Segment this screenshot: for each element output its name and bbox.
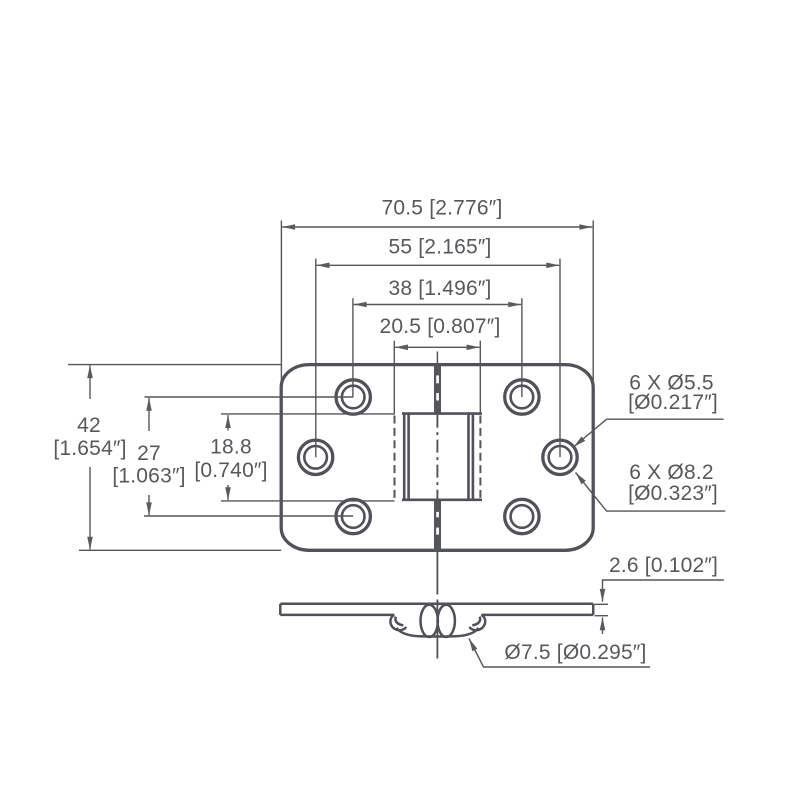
knuckle vertical line left inner <box>407 412 410 501</box>
extension line dim 38 left (to top-left hole center) <box>352 298 354 397</box>
dim 2.6 lower arrow <box>602 617 604 634</box>
svg-text:[0.740″]: [0.740″] <box>194 459 267 482</box>
svg-text:42: 42 <box>77 414 101 437</box>
knuckle hidden dashed line right <box>479 416 481 500</box>
knuckle vertical line right inner <box>467 412 470 501</box>
svg-text:2.6 [0.102″]: 2.6 [0.102″] <box>609 554 718 577</box>
hole top-left outer <box>336 380 370 414</box>
side view plate bottom edge right <box>481 614 593 617</box>
side view plate left end <box>279 604 282 615</box>
leader line 6xO8.2 <box>576 473 726 512</box>
hole bottom-right inner <box>511 505 534 528</box>
dimension line 18.8 lower segment <box>227 485 229 500</box>
dimension line 27 lower segment <box>148 495 150 515</box>
dimension line 27 upper segment <box>148 398 150 431</box>
extension line dim 55 right (to mid-right hole center) <box>559 259 561 458</box>
svg-text:70.5 [2.776″]: 70.5 [2.776″] <box>382 197 503 220</box>
knuckle top edge <box>402 412 482 415</box>
svg-text:27: 27 <box>137 442 161 465</box>
extension line dim 27 top (to top-left hole center) <box>145 396 354 398</box>
svg-text:[Ø0.217″]: [Ø0.217″] <box>628 391 718 414</box>
center seam bar bottom <box>434 500 441 551</box>
side view curl outer arc <box>397 628 479 637</box>
extension line dim 42 bottom <box>79 549 281 551</box>
extension tick 2.6 top <box>595 603 609 605</box>
side view curl left crescent tip <box>395 617 403 626</box>
dimension line 42 upper segment <box>89 365 91 399</box>
hole bottom-left inner <box>342 505 365 528</box>
leader dim O7.5 <box>469 639 650 668</box>
side view plate top edge <box>280 603 593 606</box>
side view knuckle left oval <box>421 605 438 637</box>
knuckle hidden dashed line left <box>394 416 396 500</box>
hole bottom-right outer <box>505 499 539 533</box>
dimension line 38 <box>354 304 521 306</box>
hole top-right inner <box>511 386 534 409</box>
side view knuckle right oval <box>438 605 455 637</box>
svg-text:[Ø0.323″]: [Ø0.323″] <box>628 482 718 505</box>
extension tick 2.6 bottom <box>595 615 609 617</box>
dimension line 70.5 <box>282 226 592 228</box>
side view plate bottom edge left <box>280 614 394 617</box>
extension line dim 70.5 left <box>280 221 282 390</box>
center line stub above body <box>436 352 438 365</box>
dimension line 55 <box>317 264 560 266</box>
hole mid-left outer <box>298 440 332 474</box>
svg-text:Ø7.5 [Ø0.295″]: Ø7.5 [Ø0.295″] <box>504 641 646 664</box>
center line inside knuckle <box>436 415 438 500</box>
side view plate right end <box>592 604 595 615</box>
svg-text:38 [1.496″]: 38 [1.496″] <box>388 277 491 300</box>
hole mid-left inner <box>304 446 327 469</box>
extension line dim 70.5 right <box>592 221 594 390</box>
hole top-right outer <box>505 380 539 414</box>
dimension line 18.8 upper segment <box>227 415 229 430</box>
svg-text:55 [2.165″]: 55 [2.165″] <box>388 236 491 259</box>
extension line dim 27 bottom (to bottom-left hole center) <box>144 515 353 517</box>
hole bottom-left outer <box>336 499 370 533</box>
extension line dim 20.5 left <box>393 341 395 415</box>
side view curl right crescent tip <box>472 617 480 626</box>
hinge body outline (top view) <box>281 365 593 551</box>
svg-text:20.5 [0.807″]: 20.5 [0.807″] <box>380 315 501 338</box>
dimension line 42 lower segment <box>89 467 91 550</box>
svg-text:18.8: 18.8 <box>210 436 252 459</box>
dimension line 20.5 <box>395 346 479 348</box>
extension line dim 18.8 bottom <box>221 500 395 502</box>
hole top-left inner <box>342 386 365 409</box>
knuckle bottom edge <box>402 498 482 501</box>
leader dim 2.6 <box>603 580 724 602</box>
side view curl left hook loop <box>390 615 406 630</box>
leader line 6xO5.5 <box>574 419 724 447</box>
svg-text:[1.654″]: [1.654″] <box>53 437 126 460</box>
knuckle vertical line right outer <box>472 412 475 501</box>
svg-text:[1.063″]: [1.063″] <box>112 465 185 488</box>
hole mid-right inner <box>549 446 572 469</box>
svg-text:6 X Ø8.2: 6 X Ø8.2 <box>629 461 713 484</box>
extension line dim 38 right (to top-right hole center) <box>521 298 523 397</box>
hole mid-right outer <box>543 440 577 474</box>
extension line dim 55 left (to mid-left hole center) <box>315 259 317 458</box>
knuckle vertical line left outer <box>403 412 406 501</box>
center line below body <box>436 551 438 595</box>
extension line dim 18.8 top <box>221 413 395 415</box>
center seam bar top <box>434 365 441 415</box>
extension line dim 42 top <box>68 364 281 366</box>
extension line dim 20.5 right <box>479 341 481 415</box>
side view curl right hook loop <box>469 615 485 630</box>
